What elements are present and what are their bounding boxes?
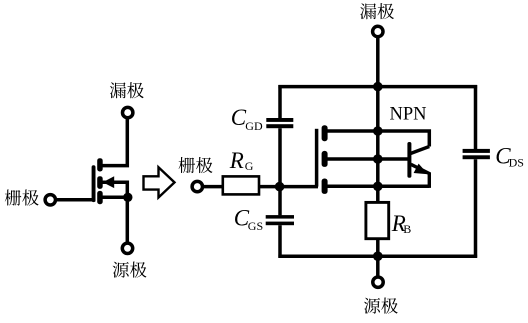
- terminal drain (left MOSFET): [123, 107, 133, 117]
- label 栅极 (gate) left: [5, 189, 39, 205]
- svg-text:R: R: [229, 148, 244, 173]
- junction gate node: [275, 182, 285, 192]
- gate bar (left MOSFET): [92, 165, 96, 202]
- resistor R_B: [366, 202, 389, 238]
- svg-text:GS: GS: [248, 219, 263, 233]
- label 漏极 (drain) left: [110, 82, 144, 98]
- wire source vertical (left): [126, 197, 130, 242]
- label 源极 (source) bottom: [364, 298, 398, 314]
- svg-text:GD: GD: [245, 119, 263, 133]
- terminal source (left MOSFET): [122, 243, 132, 253]
- channel bar bottom (left MOSFET): [97, 191, 103, 204]
- channel bar top (inner MOSFET): [322, 125, 328, 141]
- label 源极 (source) left: [113, 262, 147, 278]
- gate line (inner MOSFET): [315, 129, 319, 187]
- wire source row (inner): [327, 185, 429, 189]
- wire left branch upper: [278, 85, 282, 118]
- wire R_B to bottom row: [376, 239, 380, 257]
- wire central vertical: [376, 131, 380, 203]
- wire right branch upper: [474, 85, 478, 149]
- big hollow arrow: [144, 167, 175, 197]
- wire outer top row: [278, 85, 477, 89]
- junction drain/top row: [373, 82, 383, 92]
- wire right branch lower: [474, 159, 478, 258]
- label 漏极 (drain) top: [360, 3, 394, 19]
- svg-text:DS: DS: [509, 155, 524, 169]
- svg-text:G: G: [245, 159, 254, 173]
- NPN collector: [411, 147, 430, 154]
- junction base row: [373, 154, 383, 164]
- wire drain vertical (model): [376, 37, 380, 133]
- resistor R_G: [223, 176, 259, 194]
- arrowhead pointing to channel (left MOSFET): [103, 176, 115, 188]
- svg-text:B: B: [403, 222, 411, 236]
- wire gate to R_G: [203, 185, 223, 189]
- capacitor C_GD plates: [266, 118, 293, 128]
- capacitor C_GS plates: [266, 215, 294, 225]
- transistor Q NPN base bar: [407, 142, 411, 178]
- channel bar middle (left MOSFET): [97, 176, 103, 189]
- wire body/middle with arrow (left MOSFET): [102, 182, 127, 197]
- wire gate (left): [56, 198, 96, 202]
- wire drain row (inner): [327, 131, 429, 147]
- wire left branch lower: [278, 225, 282, 258]
- junction drain row: [373, 126, 383, 136]
- NPN emitter arrowhead: [414, 164, 428, 175]
- terminal gate (model): [192, 181, 202, 191]
- channel bar middle (inner MOSFET): [322, 151, 328, 167]
- wire R_G to gate node: [259, 185, 318, 189]
- terminal drain (model): [373, 26, 383, 36]
- capacitor C_DS plates: [463, 149, 490, 159]
- junction bottom row: [373, 251, 383, 261]
- channel bar bottom (inner MOSFET): [322, 179, 328, 194]
- terminal gate (left MOSFET): [45, 195, 55, 205]
- terminal source (model): [373, 277, 383, 287]
- label 栅极 (gate) model: [179, 157, 213, 173]
- wire base row (inner): [327, 157, 410, 161]
- NPN emitter: [411, 164, 430, 188]
- wire source vertical (model): [376, 256, 380, 276]
- svg-text:NPN: NPN: [390, 105, 427, 125]
- junction source row: [373, 182, 383, 192]
- wire source row (left MOSFET): [102, 196, 132, 200]
- wire left branch middle: [278, 128, 282, 215]
- channel bar top (left MOSFET): [97, 158, 103, 171]
- wire drain vertical (left): [100, 118, 127, 165]
- junction source-body (left MOSFET): [123, 193, 132, 202]
- wire outer bottom row: [278, 254, 477, 258]
